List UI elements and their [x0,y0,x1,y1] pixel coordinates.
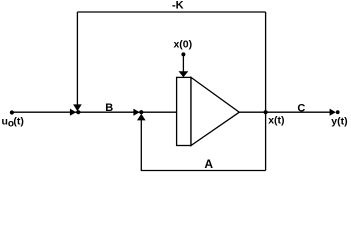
svg-text:A: A [204,157,213,171]
svg-text:x(t): x(t) [268,114,284,126]
wire top feedback -K : left vertical [76,12,78,105]
wire integrator output to y(t) [239,111,331,113]
svg-text:y(t): y(t) [331,115,347,127]
node dot x(0) initial condition [181,52,185,56]
wire bottom feedback A [141,120,265,171]
integrator block rectangle [177,77,191,145]
svg-text:uo(t): uo(t) [2,116,24,130]
arrowhead x(0) into integrator top [179,71,189,77]
arrowhead into junction 2 (from below, A feedback) [137,114,146,121]
svg-text:x(0): x(0) [173,39,192,51]
arrowhead output y(t) [330,109,336,116]
node dot x(t) junction [264,110,268,114]
node dot junction 2 [139,110,143,114]
node dot u0(t) input [10,110,14,114]
wire main input line u0 to integrator [12,111,177,113]
node dot y(t) output [336,110,340,114]
svg-text:-K: -K [172,0,184,12]
wire x(0) drop line [182,54,184,72]
svg-text:B: B [105,102,113,114]
wire right vertical (x(t) node to feedbacks) [265,12,267,171]
arrowhead into junction 1 (from top, -K feedback) [73,104,82,111]
integrator block triangle [191,77,239,145]
node dot junction 1 [76,110,80,114]
arrowhead into junction 2 (from left) [133,109,139,116]
arrowhead into junction 1 (from left) [70,109,76,116]
svg-text:C: C [297,103,305,115]
wire top feedback -K : horizontal [77,11,265,13]
